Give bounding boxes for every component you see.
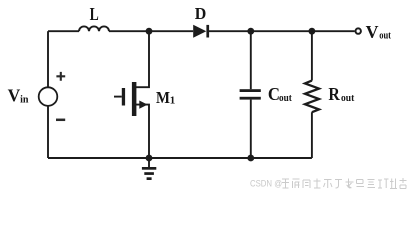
diode D cathode bar [206, 25, 209, 38]
wire top-middle segment [109, 30, 193, 32]
svg-text:out: out [379, 30, 392, 42]
capacitor Cout top lead [250, 31, 252, 89]
capacitor Cout top plate [240, 89, 261, 92]
terminal Vout open circle [356, 28, 361, 33]
resistor Rout top lead [311, 31, 313, 80]
source Vin circle [39, 87, 58, 106]
svg-text:L: L [90, 6, 99, 25]
resistor Rout zigzag [305, 81, 319, 113]
capacitor Cout bottom lead [250, 100, 252, 158]
svg-text:1: 1 [170, 94, 176, 106]
svg-text:M: M [156, 89, 170, 107]
transistor M1 source arrow [139, 101, 147, 109]
ground bar 1 [142, 167, 156, 170]
transistor M1 gate bar [122, 88, 125, 106]
node drain junction [146, 28, 153, 35]
minus sign [56, 119, 65, 122]
resistor Rout bottom lead [311, 112, 313, 158]
node resistor top junction [309, 28, 316, 35]
svg-text:V: V [8, 85, 21, 105]
capacitor Cout bottom plate [240, 97, 261, 100]
wire bottom segment [48, 157, 312, 159]
node capacitor bottom junction [247, 155, 254, 162]
transistor M1 gate lead [114, 96, 122, 98]
ground bar 3 [147, 177, 152, 180]
wire top-left segment [48, 30, 79, 32]
node ground junction [146, 155, 153, 162]
svg-text:CSDN @: CSDN @ [250, 178, 282, 189]
svg-text:in: in [20, 94, 29, 105]
svg-text:out: out [341, 92, 355, 104]
svg-text:out: out [279, 92, 292, 104]
wire left lower segment [47, 106, 49, 158]
transistor M1 channel bar [132, 82, 137, 116]
diode D anode triangle [193, 25, 206, 38]
svg-text:R: R [328, 84, 340, 104]
wire top-right segment [209, 30, 355, 32]
svg-text:D: D [195, 4, 207, 24]
node capacitor top junction [247, 28, 254, 35]
wire left upper segment [47, 31, 49, 87]
watermark CJK glyph blocks [282, 178, 407, 189]
transistor M1 source wire [136, 105, 149, 158]
inductor L [79, 26, 109, 31]
transistor M1 drain wire [136, 31, 149, 87]
svg-text:V: V [366, 22, 379, 42]
plus sign [56, 72, 65, 81]
ground stem [148, 158, 150, 167]
ground bar 2 [144, 172, 154, 175]
